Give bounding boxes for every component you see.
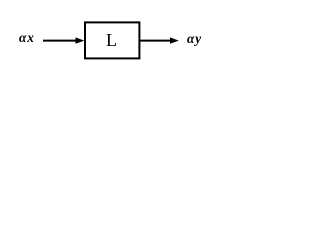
svg-text:L: L (106, 30, 117, 50)
block L (system) (85, 22, 139, 58)
svg-text:αy: αy (187, 31, 202, 46)
wire output (140, 40, 171, 42)
arrowhead output (170, 37, 179, 43)
wire input (43, 40, 77, 42)
svg-text:αx: αx (19, 30, 35, 45)
arrowhead input (76, 37, 85, 43)
